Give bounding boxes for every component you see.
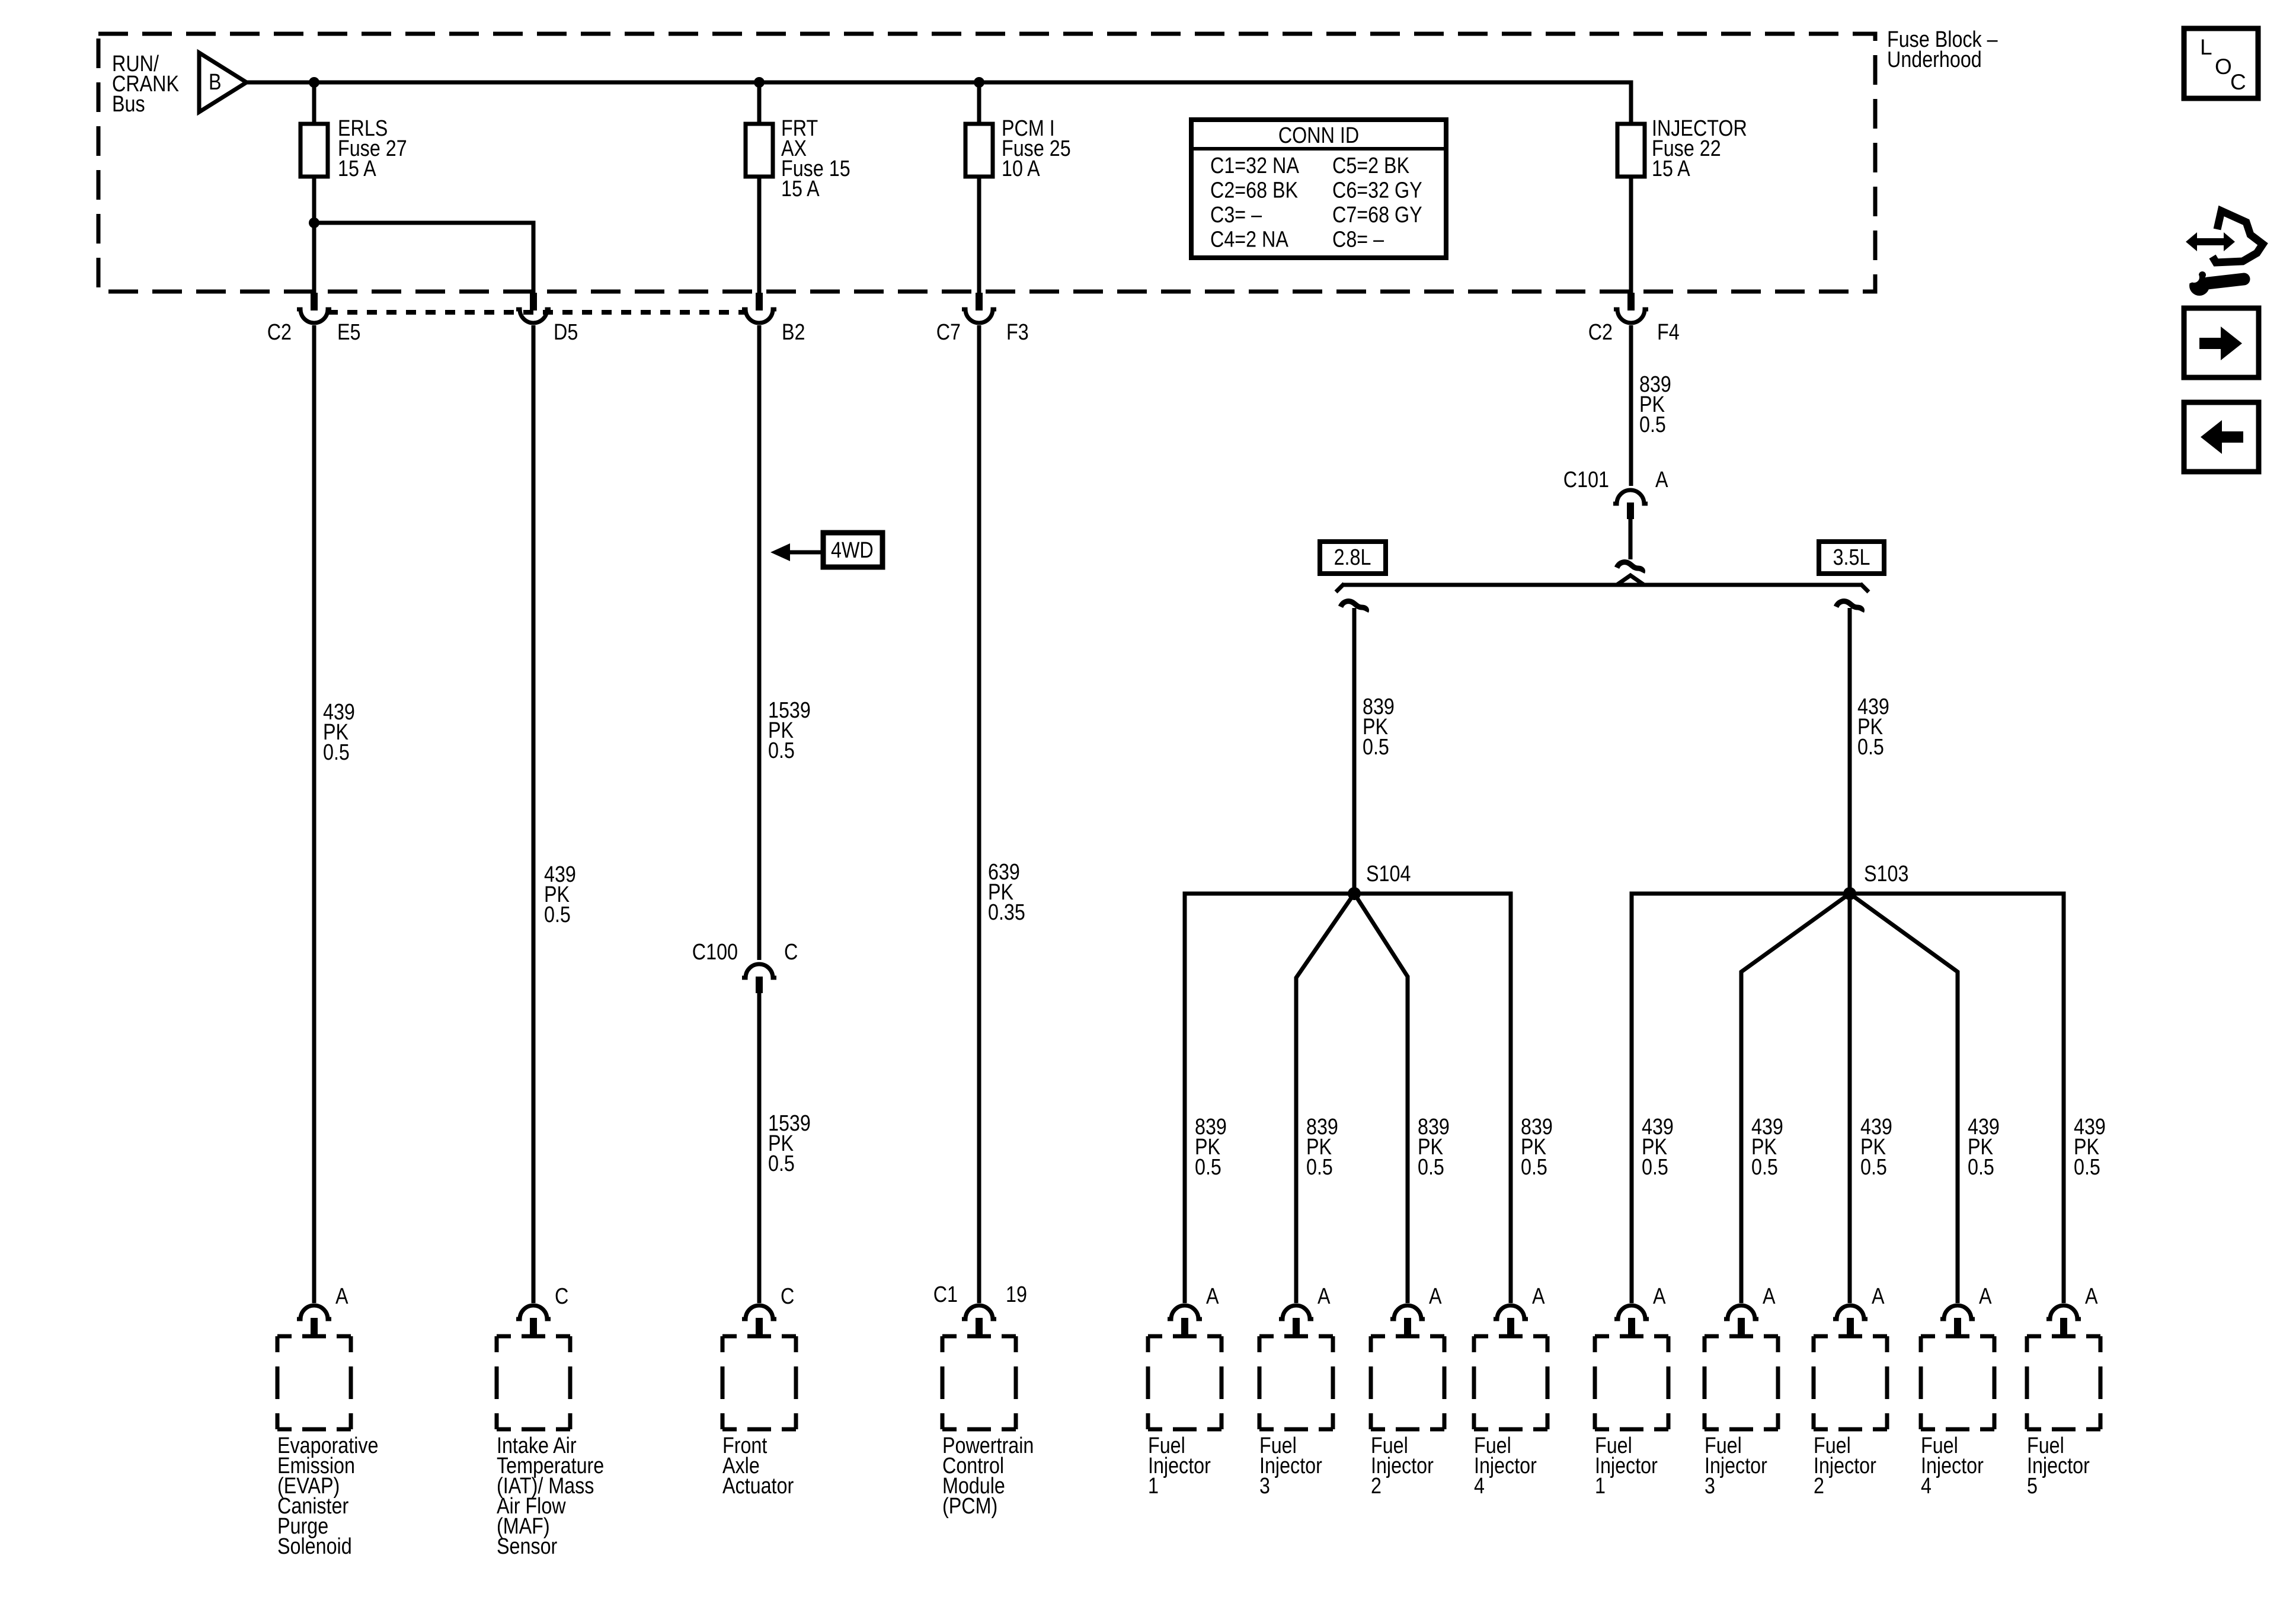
- dotted connector line C2 between E5 and B2: [328, 310, 746, 315]
- svg-text:E5: E5: [337, 320, 360, 345]
- label fuel injector 3: [1259, 1433, 1322, 1499]
- S104 inner-right branch wire: [1354, 894, 1408, 1303]
- wire label 839 PK 0.5 (F4-C101): [1639, 372, 1671, 437]
- harness break 2.8L branch: [1341, 601, 1367, 612]
- fuse PCM I Fuse 25 10A label: [1002, 116, 1071, 181]
- connector stub C2 pin E5: [311, 293, 318, 311]
- splice S104: [1348, 887, 1361, 900]
- pin label A (Fuel Injector 1 connector): [1206, 1284, 1219, 1309]
- junction dot bus/FRT AX: [754, 77, 765, 88]
- triangle label B: [209, 70, 222, 95]
- service icon wrench: [2180, 268, 2244, 296]
- label C101: [1563, 468, 1609, 492]
- wire INJECTOR fuse to connector F4: [1629, 177, 1633, 293]
- svg-text:C: C: [2230, 70, 2246, 94]
- wire label 839 PK 0.5 at x=2549: [1521, 1115, 1553, 1180]
- label fuel injector 5: [2027, 1433, 2090, 1499]
- pin label A (Fuel Injector 1 (3.5L) connector): [1653, 1284, 1666, 1309]
- svg-text:S104: S104: [1366, 862, 1411, 886]
- label powertrain control module: [942, 1433, 1034, 1519]
- branch wire to connector D5: [314, 223, 533, 293]
- Fuel Injector 2 connector dome: [1390, 1305, 1425, 1319]
- svg-text:A: A: [1429, 1284, 1442, 1309]
- back arrow: [2201, 420, 2243, 454]
- component box fuel injector 1: [1148, 1336, 1221, 1429]
- forward arrow: [2199, 327, 2242, 360]
- svg-text:C100: C100: [692, 940, 738, 965]
- Fuel Injector 3 (3.5L) connector stub: [1738, 1318, 1745, 1336]
- connector stub C7 pin F3: [976, 293, 983, 311]
- svg-text:B: B: [209, 70, 222, 95]
- wire 439 PK EVAP column: [312, 325, 316, 1303]
- fuse block underhood dashed border: [98, 34, 1875, 292]
- label fuel injector 1: [1148, 1433, 1211, 1499]
- component box fuel injector 2: [1371, 1336, 1444, 1429]
- label C2 (left of E5): [267, 320, 292, 345]
- Fuel Injector 2 (3.5L) connector dome: [1833, 1305, 1868, 1319]
- svg-text:A: A: [1979, 1284, 1992, 1309]
- svg-text:A: A: [1206, 1284, 1219, 1309]
- wire label 1539 PK 0.5 upper: [768, 698, 811, 763]
- svg-text:F4: F4: [1657, 320, 1680, 345]
- fuse ERLS Fuse 27 15A: [300, 124, 328, 177]
- fuse INJECTOR Fuse 22 15A: [1617, 124, 1645, 177]
- svg-text:A: A: [1653, 1284, 1666, 1309]
- svg-text:D5: D5: [554, 320, 578, 345]
- Fuel Injector 4 (3.5L) connector stub: [1954, 1318, 1961, 1336]
- service icon double arrow: [2186, 232, 2235, 251]
- S103 outer branch wires: [1632, 894, 2064, 1303]
- junction dot ERLS branch: [309, 217, 319, 228]
- 2.8L label: [1334, 545, 1371, 570]
- wire label 439 PK 0.5 at x=3482: [2074, 1115, 2106, 1180]
- triangle connector B (RUN/CRANK bus feed): [199, 53, 247, 112]
- connector cup C2 pin F4: [1614, 309, 1648, 323]
- Fuel Injector 3 connector dome: [1279, 1305, 1313, 1319]
- svg-text:A: A: [1655, 468, 1668, 492]
- RUN/CRANK Bus label: [112, 52, 179, 117]
- bus wire from triangle B to INJECTOR fuse: [247, 82, 1631, 124]
- pin label A (Fuel Injector 2 connector): [1429, 1284, 1442, 1309]
- svg-text:C7: C7: [936, 320, 961, 345]
- component box fuel injector 2 (3.5L): [1814, 1336, 1887, 1429]
- pin label C (C100): [784, 940, 798, 965]
- svg-text:A: A: [1872, 1284, 1885, 1309]
- service icon vehicle outline: [2212, 211, 2263, 263]
- wire label 839 PK 0.5 at x=2187: [1306, 1115, 1338, 1180]
- option box 3.5L: [1819, 542, 1884, 574]
- pin label E5: [337, 320, 360, 345]
- wire label 839 PK 0.5 (S104 feed): [1363, 694, 1395, 760]
- wire label 439 PK 0.5 (EVAP): [323, 700, 355, 765]
- label C7 (left of F3): [936, 320, 961, 345]
- wire label 439 PK 0.5 at x=2938: [1751, 1115, 1783, 1180]
- CONN ID left column: [1210, 153, 1299, 252]
- svg-text:4WD: 4WD: [831, 538, 874, 563]
- wire label 1539 PK 0.5 lower: [768, 1111, 811, 1176]
- fuse FRT AX Fuse 15 15A: [746, 124, 773, 177]
- Fuel Injector 2 (3.5L) connector stub: [1847, 1318, 1854, 1336]
- junction dot bus/ERLS: [309, 77, 319, 88]
- connector cup connector B2: [742, 309, 776, 323]
- Evaporative Emission (EVAP) connector stub: [311, 1318, 318, 1336]
- wire label 439 PK 0.5 at x=3122: [1860, 1115, 1892, 1180]
- svg-text:C101: C101: [1563, 468, 1609, 492]
- Fuel Injector 1 connector dome: [1168, 1305, 1202, 1319]
- connector C100 dome: [742, 964, 776, 978]
- connector C101 dome: [1613, 490, 1648, 504]
- pin label A (Evaporative Emission (EVAP) connector): [335, 1284, 348, 1309]
- pin label A (Fuel Injector 4 connector): [1532, 1284, 1545, 1309]
- wire label 439 PK 0.5 at x=3303: [1968, 1115, 2000, 1180]
- 4WD option arrow: [770, 543, 823, 561]
- label C100: [692, 940, 738, 965]
- pin label C1 (PCM): [933, 1282, 958, 1307]
- pin label A (Fuel Injector 4 (3.5L) connector): [1979, 1284, 1992, 1309]
- Fuel Injector 1 (3.5L) connector stub: [1628, 1318, 1635, 1336]
- connector C100 stub: [756, 977, 763, 993]
- wire bus to PCM I fuse: [977, 82, 981, 124]
- wire bus to ERLS fuse: [312, 82, 316, 124]
- pin label A (Fuel Injector 5 connector): [2085, 1284, 2098, 1309]
- LOC letters: [2200, 35, 2246, 94]
- CONN ID title: [1278, 123, 1359, 148]
- back arrow box: [2184, 402, 2259, 472]
- svg-text:B2: B2: [782, 320, 805, 345]
- IAT/MAF connector dome: [516, 1305, 551, 1319]
- fuse PCM I Fuse 25 10A: [965, 124, 993, 177]
- Evaporative Emission (EVAP) connector dome: [297, 1305, 331, 1319]
- fuse block title: [1887, 27, 1998, 72]
- engine option split line: [1336, 584, 1869, 592]
- S103 inner-right branch wire: [1850, 894, 1958, 1303]
- label S104: [1366, 862, 1411, 886]
- wire label 639 PK 0.35 (PCM): [988, 860, 1025, 925]
- fuse INJECTOR Fuse 22 15A label: [1652, 116, 1747, 181]
- 4WD option box: [823, 533, 882, 567]
- label IAT/MAF sensor: [497, 1433, 604, 1559]
- harness break 3.5L branch: [1836, 601, 1862, 612]
- wire 1539 PK lower (front axle): [757, 993, 762, 1303]
- S104 outer branch wires: [1185, 894, 1511, 1303]
- pin label F4: [1657, 320, 1680, 345]
- svg-text:L: L: [2200, 35, 2212, 59]
- svg-text:C2: C2: [1588, 320, 1613, 345]
- svg-text:A: A: [335, 1284, 348, 1309]
- junction dot bus/PCM I: [974, 77, 984, 88]
- component box powertrain control module: [942, 1336, 1016, 1429]
- Fuel Injector 2 connector stub: [1404, 1318, 1411, 1336]
- chevron junction at C101 drop: [1617, 575, 1644, 585]
- Fuel Injector 3 (3.5L) connector dome: [1724, 1305, 1758, 1319]
- CONN ID table: [1191, 120, 1446, 258]
- Fuel Injector 1 (3.5L) connector dome: [1614, 1305, 1649, 1319]
- wire PCM I fuse to connector F3: [977, 177, 981, 293]
- connector cup C2 pin D5: [516, 309, 551, 323]
- label fuel injector 4 (3.5L): [1921, 1433, 1984, 1499]
- component box fuel injector 3 (3.5L): [1705, 1336, 1778, 1429]
- Front Axle Actuator connector dome: [742, 1305, 776, 1319]
- svg-text:F3: F3: [1006, 320, 1029, 345]
- label S103: [1864, 862, 1908, 886]
- wire 839 PK fuse22 to C101: [1629, 325, 1633, 486]
- svg-text:A: A: [1532, 1284, 1545, 1309]
- svg-text:C2: C2: [267, 320, 292, 345]
- pin label F3: [1006, 320, 1029, 345]
- pin label A (C101): [1655, 468, 1668, 492]
- svg-text:A: A: [1763, 1284, 1776, 1309]
- wire 1539 PK upper (front axle): [757, 325, 762, 960]
- wire label 439 PK 0.5 (IAT/MAF): [544, 862, 576, 927]
- component box fuel injector 4: [1474, 1336, 1547, 1429]
- svg-text:C: C: [555, 1284, 568, 1309]
- option box 2.8L: [1320, 542, 1386, 574]
- wire ERLS fuse to connector E5: [312, 177, 316, 293]
- LOC icon box: [2184, 28, 2258, 98]
- harness break below C101: [1617, 562, 1643, 572]
- component box fuel injector 3: [1259, 1336, 1333, 1429]
- Fuel Injector 1 connector stub: [1181, 1318, 1188, 1336]
- connector stub C2 pin F4: [1627, 293, 1635, 311]
- CONN ID right column: [1332, 153, 1422, 252]
- splice S103: [1843, 887, 1856, 900]
- pin label A (Fuel Injector 3 connector): [1318, 1284, 1331, 1309]
- svg-text:3.5L: 3.5L: [1833, 545, 1870, 570]
- Fuel Injector 4 connector dome: [1494, 1305, 1528, 1319]
- svg-text:C1=32 NAC2=68 BKC3= –C4=2 NA: C1=32 NAC2=68 BKC3= –C4=2 NA: [1210, 153, 1299, 252]
- svg-text:S103: S103: [1864, 862, 1908, 886]
- component box EVAP canister purge solenoid: [277, 1336, 351, 1429]
- pin label C (IAT/MAF connector): [555, 1284, 568, 1309]
- svg-text:2.8L: 2.8L: [1334, 545, 1371, 570]
- label fuel injector 1 (3.5L): [1595, 1433, 1658, 1499]
- pin label B2: [782, 320, 805, 345]
- wire bus to FRT AX fuse: [757, 82, 762, 124]
- wire label 439 PK 0.5 (S103 feed): [1857, 694, 1889, 760]
- svg-text:C: C: [784, 940, 798, 965]
- svg-text:O: O: [2215, 55, 2232, 79]
- wire label 839 PK 0.5 at x=2375: [1418, 1115, 1450, 1180]
- connector stub C2 pin D5: [530, 293, 537, 311]
- label EVAP canister purge solenoid: [277, 1433, 379, 1559]
- connector C101 stub: [1627, 502, 1634, 519]
- forward arrow box: [2184, 308, 2259, 377]
- pin label C (Front Axle Actuator connector): [781, 1284, 794, 1309]
- Fuel Injector 4 connector stub: [1507, 1318, 1514, 1336]
- pin label 19 (PCM): [1006, 1282, 1027, 1307]
- label front axle actuator: [722, 1433, 794, 1499]
- component box fuel injector 5: [2027, 1336, 2100, 1429]
- wire 439 PK to S103: [1848, 608, 1852, 889]
- S103 center branch wire: [1848, 894, 1852, 1303]
- label C2 (left of F4): [1588, 320, 1613, 345]
- connector stub connector B2: [756, 293, 763, 311]
- PCM connector C1 pin 19 dome: [962, 1305, 996, 1319]
- wire C101 to break: [1629, 519, 1633, 559]
- IAT/MAF connector stub: [530, 1318, 537, 1336]
- component box fuel injector 1 (3.5L): [1595, 1336, 1668, 1429]
- S103 inner-left branch wire: [1741, 894, 1850, 1303]
- wire 439 PK IAT column: [532, 325, 536, 1303]
- connector cup C7 pin F3: [962, 309, 996, 323]
- Fuel Injector 4 (3.5L) connector dome: [1940, 1305, 1975, 1319]
- Fuel Injector 5 connector stub: [2060, 1318, 2067, 1336]
- pin label D5: [554, 320, 578, 345]
- PCM connector C1 pin 19 stub: [976, 1318, 983, 1336]
- Fuel Injector 3 connector stub: [1293, 1318, 1300, 1336]
- 3.5L label: [1833, 545, 1870, 570]
- wire FRT AX fuse to connector B2: [757, 177, 762, 293]
- Fuel Injector 5 connector dome: [2046, 1305, 2081, 1319]
- pin label A (Fuel Injector 3 (3.5L) connector): [1763, 1284, 1776, 1309]
- pin label A (Fuel Injector 2 (3.5L) connector): [1872, 1284, 1885, 1309]
- S104 inner-left branch wire: [1296, 894, 1354, 1303]
- Front Axle Actuator connector stub: [756, 1318, 763, 1336]
- svg-text:Fuse Block –Underhood: Fuse Block –Underhood: [1887, 27, 1998, 72]
- svg-text:A: A: [1318, 1284, 1331, 1309]
- svg-text:C1: C1: [933, 1282, 958, 1307]
- connector cup C2 pin E5: [297, 309, 331, 323]
- svg-text:A: A: [2085, 1284, 2098, 1309]
- fuse FRT AX Fuse 15 15A label: [781, 116, 850, 201]
- label fuel injector 3 (3.5L): [1705, 1433, 1767, 1499]
- wire 639 PK PCM column: [977, 325, 981, 1303]
- 4WD label: [831, 538, 874, 563]
- svg-text:CONN ID: CONN ID: [1278, 123, 1359, 148]
- label fuel injector 2 (3.5L): [1814, 1433, 1876, 1499]
- label fuel injector 4: [1474, 1433, 1537, 1499]
- component box front axle actuator: [722, 1336, 796, 1429]
- component box fuel injector 4 (3.5L): [1921, 1336, 1994, 1429]
- svg-text:19: 19: [1006, 1282, 1027, 1307]
- fuse ERLS Fuse 27 15A label: [338, 116, 407, 181]
- wire 839 PK to S104: [1352, 608, 1357, 889]
- label fuel injector 2: [1371, 1433, 1434, 1499]
- wire label 839 PK 0.5 at x=1999: [1195, 1115, 1227, 1180]
- svg-text:C: C: [781, 1284, 794, 1309]
- component box IAT/MAF sensor: [497, 1336, 570, 1429]
- wire label 439 PK 0.5 at x=2753: [1642, 1115, 1674, 1180]
